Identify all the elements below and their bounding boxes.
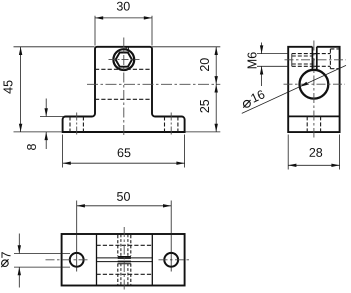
screw crossing block (bottom view): [118, 258, 131, 262]
screw hole hidden lines (bottom view): [118, 235, 131, 285]
leader diameter 16: [242, 65, 346, 113]
bottom view outline: [62, 234, 185, 286]
svg-text:28: 28: [309, 146, 323, 160]
dimension M6: [246, 43, 289, 87]
mounting hole left (bottom view): [70, 253, 84, 267]
dimension 30: [95, 0, 152, 46]
dimension 50: [77, 190, 172, 272]
mounting hole right (bottom view): [164, 253, 178, 267]
svg-text:65: 65: [117, 146, 131, 160]
bore circle (side): [300, 70, 329, 99]
svg-text:20: 20: [198, 58, 212, 72]
svg-text:45: 45: [1, 80, 15, 94]
mounting hole hidden lines (side): [307, 116, 320, 132]
dimension 28: [288, 135, 339, 170]
M6 screw thread hidden lines (side): [292, 54, 331, 67]
hex socket: [116, 53, 132, 67]
dimension 20: [152, 47, 220, 132]
svg-text:50: 50: [117, 190, 131, 204]
vertical centerline (front): [123, 38, 125, 137]
screw centerline (front): [109, 59, 140, 61]
clamp screw head circle (front): [113, 49, 134, 70]
front view outline (T-shaped block): [63, 47, 185, 132]
screw end face: [291, 54, 293, 67]
bore hidden lines (bottom view): [97, 245, 153, 274]
slit lines (bottom view): [97, 258, 153, 262]
svg-text:7: 7: [0, 251, 13, 258]
screw axis centerline (side): [285, 59, 347, 61]
dimension 25: [198, 84, 218, 132]
front slit lines: [126, 46, 128, 50]
mounting hole hidden lines (front): [70, 117, 178, 133]
side vertical centerline: [313, 41, 315, 138]
hole centerlines (bottom view): [46, 259, 192, 261]
screw head hidden box (side): [330, 49, 339, 69]
svg-text:M6: M6: [246, 52, 260, 69]
screw crossing slit solid segments: [312, 54, 316, 67]
hole centerlines (front): [77, 113, 172, 136]
bore axis centerline (front): [87, 83, 220, 85]
dimension diameter 7: [0, 234, 70, 288]
dimension 65: [63, 135, 185, 168]
column projection lines (bottom view): [97, 234, 153, 286]
svg-text:8: 8: [25, 143, 39, 150]
side shoulder line: [288, 115, 339, 117]
svg-text:30: 30: [116, 0, 130, 14]
svg-text:25: 25: [198, 99, 212, 113]
main vertical centerline (bottom view): [123, 227, 125, 291]
side view outline: [288, 47, 339, 132]
side slit lines: [312, 47, 316, 71]
dimension 45: [1, 47, 94, 132]
dimension 8: [25, 99, 64, 151]
side bore centerline: [284, 83, 346, 85]
bore hidden lines (front): [95, 69, 152, 99]
